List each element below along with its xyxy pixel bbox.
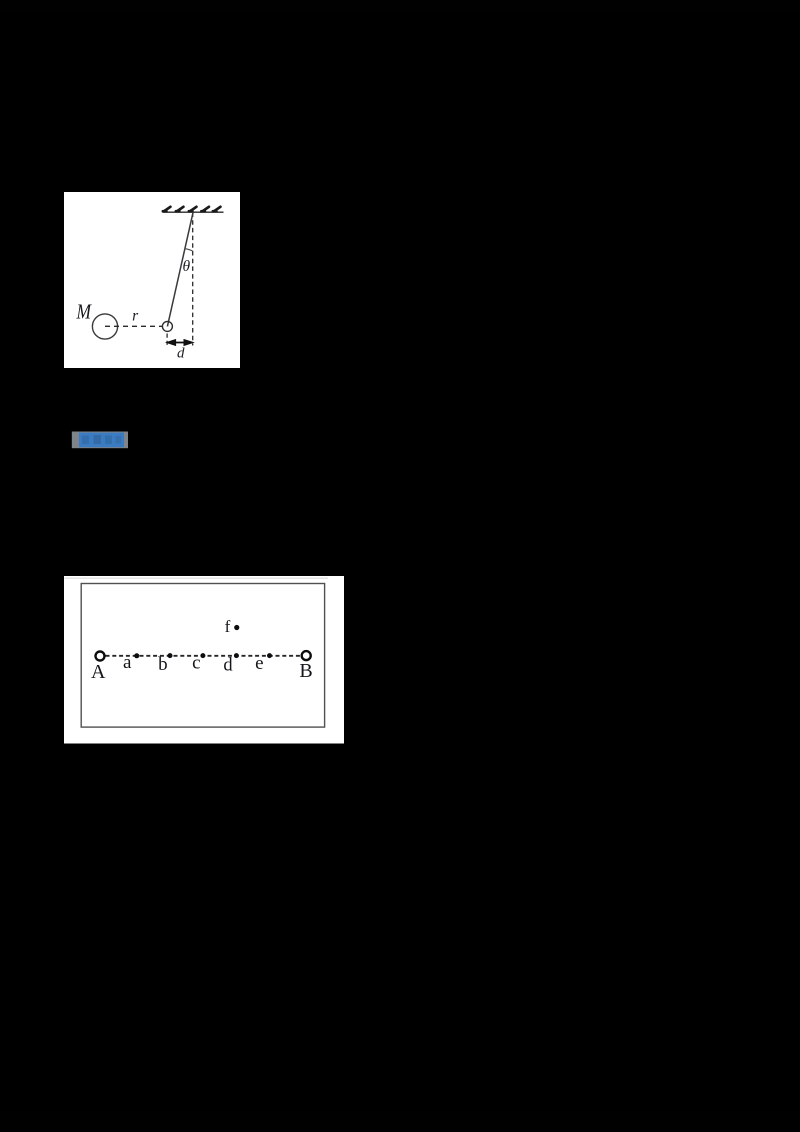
blue answer tag — [72, 432, 128, 449]
svg-text:M: M — [76, 300, 93, 324]
svg-text:c: c — [192, 653, 200, 674]
svg-text:B: B — [299, 660, 312, 682]
pendulum rod — [167, 212, 193, 326]
point e — [267, 653, 272, 658]
ceiling hatch marks — [163, 207, 221, 211]
charge ring B — [302, 651, 311, 660]
svg-text:θ: θ — [182, 258, 190, 275]
bob fill — [162, 321, 172, 331]
bottom black bar — [0, 1110, 800, 1132]
point a — [134, 653, 139, 658]
figure 2 white panel (field points) — [64, 576, 344, 744]
svg-text:a: a — [123, 652, 132, 673]
point c — [200, 653, 205, 658]
vertical dashed reference line — [192, 213, 194, 346]
d double arrow — [167, 340, 194, 346]
svg-text:e: e — [255, 653, 263, 674]
left short dashed vertical below bob — [166, 334, 168, 347]
bob circle — [162, 321, 172, 331]
angle arc — [185, 248, 193, 251]
top black bar — [0, 0, 800, 14]
svg-text:d: d — [223, 656, 233, 676]
dashed line r — [105, 325, 162, 327]
dashed line A to B — [106, 655, 302, 657]
point d — [234, 653, 239, 658]
inner border rectangle — [81, 584, 324, 728]
svg-text:A: A — [91, 661, 106, 683]
mass M circle — [92, 314, 117, 339]
svg-text:f: f — [225, 617, 231, 636]
faint scan line at top of panel — [65, 577, 329, 579]
charge ring A — [96, 652, 105, 661]
svg-text:d: d — [177, 345, 185, 361]
point f — [234, 625, 239, 630]
ceiling line — [163, 211, 224, 213]
svg-text:r: r — [132, 308, 139, 325]
svg-text:b: b — [158, 654, 168, 675]
figure 1 white panel (pendulum) — [64, 192, 240, 368]
point b — [168, 653, 173, 658]
